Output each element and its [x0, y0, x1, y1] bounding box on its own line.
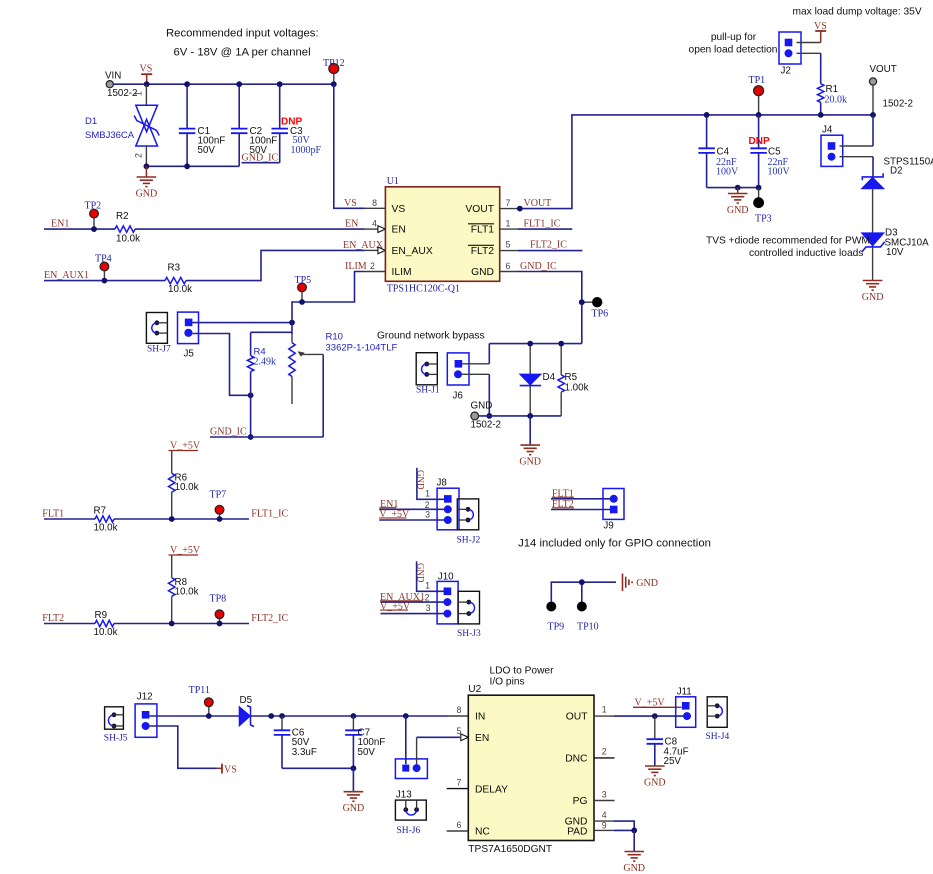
svg-text:EN_AUX1: EN_AUX1 — [44, 270, 89, 281]
node junction TP4 — [102, 278, 108, 284]
node junction TP8 — [217, 621, 223, 627]
node junction C1 bottom — [184, 163, 190, 169]
node junction after D5 — [268, 713, 285, 719]
svg-text:3: 3 — [602, 789, 607, 799]
wire — [171, 596, 173, 623]
resistor R2 — [115, 211, 140, 244]
capacitor C7 — [345, 728, 385, 758]
node junction C7 top — [351, 713, 357, 719]
node junction D4 bottom — [527, 413, 533, 419]
shunt SH-J4 — [706, 697, 730, 742]
wire — [186, 250, 378, 280]
svg-text:2: 2 — [602, 747, 607, 757]
connector J2 — [779, 32, 801, 77]
svg-text:2: 2 — [425, 592, 430, 602]
connector J11 — [676, 686, 696, 727]
wire — [594, 800, 615, 802]
svg-text:10.0k: 10.0k — [168, 284, 192, 295]
wire — [551, 582, 616, 601]
connector J4 — [821, 125, 843, 167]
svg-text:TPS7A1650DGNT: TPS7A1650DGNT — [468, 844, 552, 855]
resistor R5 — [558, 372, 589, 394]
wire — [44, 518, 95, 520]
svg-text:ILIM: ILIM — [392, 267, 412, 278]
wire — [135, 228, 378, 230]
svg-text:NC: NC — [475, 827, 490, 838]
power port V_+5V at R6 — [169, 441, 201, 452]
wire — [149, 715, 239, 717]
resistor R4 — [247, 347, 276, 372]
wire — [250, 715, 447, 717]
wire — [171, 555, 173, 578]
test point TP1 — [749, 75, 766, 115]
capacitor C1 — [179, 126, 225, 156]
pin number 1 of J8 — [425, 489, 430, 499]
net label FLT1_IC — [524, 219, 561, 230]
shunt SH-J3 — [457, 591, 481, 639]
node junction R5 top — [558, 341, 564, 347]
capacitor C8 — [647, 737, 689, 768]
resistor R1 — [818, 84, 848, 106]
node junction R4 mid — [248, 392, 254, 398]
svg-text:TP7: TP7 — [210, 489, 227, 500]
svg-text:8: 8 — [372, 198, 377, 208]
svg-text:3: 3 — [426, 603, 431, 613]
wire — [462, 374, 489, 416]
op-amp U2 TPS7A1650DGNT body — [468, 684, 594, 855]
svg-text:J8: J8 — [437, 477, 448, 488]
svg-text:J11: J11 — [677, 686, 692, 697]
wire — [706, 115, 708, 148]
svg-text:TPS1HC120C-Q1: TPS1HC120C-Q1 — [387, 284, 460, 295]
svg-text:R10: R10 — [326, 332, 343, 343]
wire — [447, 830, 469, 832]
node junction TP11 — [206, 713, 212, 719]
ground — [862, 281, 884, 304]
wire — [251, 332, 292, 355]
ground — [136, 166, 158, 199]
ground — [727, 188, 749, 216]
svg-text:J4: J4 — [822, 125, 833, 136]
capacitor C3 DNP — [271, 117, 321, 157]
svg-text:J6: J6 — [453, 390, 464, 401]
svg-text:VOUT: VOUT — [465, 204, 494, 215]
svg-text:SH-J5: SH-J5 — [104, 734, 128, 744]
svg-text:ILIM: ILIM — [345, 261, 367, 272]
node junction R1 rail — [818, 112, 824, 118]
svg-text:5: 5 — [506, 240, 511, 250]
svg-text:GND: GND — [623, 863, 645, 874]
pin name FLT2 — [468, 245, 494, 257]
svg-text:controlled inductive loads: controlled inductive loads — [749, 248, 863, 259]
wire — [594, 757, 615, 759]
wire — [291, 323, 293, 404]
svg-text:1502-2: 1502-2 — [883, 99, 914, 110]
wire — [186, 84, 188, 128]
svg-text:TP8: TP8 — [210, 593, 227, 604]
wire — [192, 322, 292, 324]
svg-text:3362P-1-104TLF: 3362P-1-104TLF — [326, 343, 398, 354]
svg-text:R7: R7 — [94, 506, 107, 517]
net label FLT2 at J9 — [551, 499, 610, 510]
capacitor C5 DNP — [749, 136, 791, 178]
wire — [462, 344, 489, 364]
svg-text:2: 2 — [425, 500, 430, 510]
diode D3 SMCJ10A — [862, 228, 930, 259]
net label VOUT — [524, 198, 552, 209]
diode D5 — [239, 695, 254, 727]
wire — [581, 582, 583, 601]
svg-text:TP1: TP1 — [749, 75, 766, 86]
svg-text:R1: R1 — [826, 84, 839, 95]
svg-text:GND: GND — [136, 189, 158, 200]
pin number 6 of U2 — [457, 820, 462, 830]
svg-text:VIN: VIN — [105, 71, 121, 82]
svg-text:GND: GND — [727, 205, 749, 216]
pin name VOUT — [465, 204, 494, 215]
node junction TP7 — [217, 516, 223, 522]
pin number 7 of U1 — [506, 198, 511, 208]
ground — [343, 768, 365, 814]
svg-text:8: 8 — [457, 705, 462, 715]
wire — [479, 415, 562, 417]
connector J9 — [603, 489, 624, 532]
wire — [279, 84, 281, 128]
svg-text:LDO to Power: LDO to Power — [490, 666, 555, 677]
test point TP8 — [210, 593, 227, 623]
node junction TP10 — [579, 579, 585, 585]
node junction C4 top — [704, 112, 710, 118]
node junction D1 ground — [144, 163, 150, 169]
test point TP5 — [295, 275, 312, 302]
svg-text:3.3uF: 3.3uF — [292, 747, 317, 758]
svg-text:VS: VS — [344, 198, 357, 209]
diode D2 STPS1150A — [862, 156, 933, 189]
node junction TP12 — [331, 81, 337, 87]
pin number 2 of D1 — [134, 153, 144, 158]
resistor R6 — [169, 473, 199, 494]
node junction TP6 — [579, 299, 585, 305]
wire — [797, 42, 821, 44]
pin name IN — [475, 712, 485, 723]
svg-text:FLT1_IC: FLT1_IC — [251, 509, 288, 520]
pin name EN_AUX — [392, 246, 433, 257]
svg-text:2: 2 — [134, 153, 144, 158]
net label GND rotated at J10 — [416, 561, 444, 591]
pin number 2 of U2 — [602, 747, 607, 757]
test point TP10 — [577, 602, 599, 633]
svg-text:max load dump voltage: 35V: max load dump voltage: 35V — [793, 7, 922, 18]
test point TP9 — [546, 602, 564, 633]
wire — [281, 716, 283, 730]
wire — [840, 157, 874, 177]
wire — [44, 228, 115, 230]
svg-text:GND: GND — [471, 267, 494, 278]
pin number 2 of U1 — [370, 261, 375, 271]
svg-text:10.0k: 10.0k — [94, 627, 118, 638]
svg-text:FLT2: FLT2 — [552, 499, 574, 510]
text LDO to Power — [490, 666, 555, 688]
wire — [149, 726, 216, 768]
pin name PAD — [567, 827, 587, 838]
svg-text:D1: D1 — [85, 116, 97, 127]
wire — [529, 386, 531, 416]
wire — [365, 207, 386, 209]
svg-text:VOUT: VOUT — [524, 198, 552, 209]
svg-text:1: 1 — [134, 91, 144, 96]
pin number 5 of U1 — [506, 240, 511, 250]
pin arrow EN_AUX — [378, 247, 386, 254]
wire — [145, 84, 147, 105]
svg-text:TP9: TP9 — [548, 621, 565, 632]
wire — [872, 189, 874, 233]
svg-text:J12: J12 — [137, 692, 153, 703]
test point TP3 — [753, 188, 771, 225]
net label EN_AUX — [343, 240, 384, 251]
svg-text:10.0k: 10.0k — [116, 233, 140, 244]
net label FLT1 — [42, 509, 64, 520]
svg-text:4: 4 — [372, 219, 377, 229]
wire — [560, 344, 562, 375]
connector EN jumper — [395, 759, 427, 779]
svg-text:1: 1 — [425, 489, 430, 499]
ground — [623, 830, 645, 874]
svg-text:R2: R2 — [116, 211, 129, 222]
svg-text:EN_AUX: EN_AUX — [392, 246, 433, 257]
power port VS rotated — [217, 764, 237, 776]
svg-text:J9: J9 — [603, 521, 613, 532]
pin name FLT1 — [468, 224, 494, 236]
connector J6 — [447, 353, 469, 401]
svg-text:TP2: TP2 — [85, 201, 102, 212]
net label GND rotated at J8 — [415, 468, 444, 499]
node junction R4 bottom — [248, 434, 254, 440]
svg-text:FLT1: FLT1 — [42, 509, 64, 520]
text TVS diode note — [706, 236, 870, 259]
wire — [654, 716, 656, 739]
svg-text:J2: J2 — [781, 66, 791, 77]
test point TP11 — [189, 685, 214, 716]
node junction C8 top — [652, 713, 658, 719]
svg-text:J13: J13 — [396, 789, 412, 800]
wire — [238, 84, 240, 128]
power port V_+5V at J11 — [633, 697, 682, 708]
net label FLT1_IC right — [251, 509, 288, 520]
pin number 4 of U1 — [372, 219, 377, 229]
svg-text:IN: IN — [475, 712, 485, 723]
wire — [654, 744, 656, 766]
connector J12 — [135, 692, 157, 738]
shunt SH-J1 — [416, 353, 440, 396]
test point TP6 — [582, 297, 608, 320]
wire — [292, 272, 385, 323]
shunt SH-J2 — [457, 499, 481, 546]
svg-text:VS: VS — [392, 204, 406, 215]
net label GND_IC at R4 — [210, 427, 247, 438]
svg-text:6: 6 — [506, 261, 511, 271]
wire — [529, 344, 531, 375]
node junction C7 bottom — [351, 765, 357, 771]
net label EN_AUX1 — [44, 270, 89, 281]
svg-text:EN1: EN1 — [51, 219, 69, 230]
svg-text:VS: VS — [224, 764, 237, 775]
svg-text:TP6: TP6 — [592, 309, 609, 320]
svg-text:1: 1 — [506, 219, 511, 229]
net label VS — [344, 198, 357, 209]
svg-text:1: 1 — [602, 705, 607, 715]
test point VOUT — [869, 64, 913, 115]
pin number 1 of D1 — [134, 91, 144, 96]
resistor R9 — [94, 610, 118, 638]
text ground network bypass — [377, 331, 485, 342]
svg-text:TVS +diode recommended for PWM: TVS +diode recommended for PWM — [706, 236, 870, 247]
node junction R10 top — [289, 320, 295, 326]
svg-text:I/O pins: I/O pins — [490, 677, 525, 688]
svg-text:SH-J2: SH-J2 — [457, 536, 481, 546]
svg-text:FLT1: FLT1 — [471, 225, 495, 236]
power port VS at J2 — [814, 21, 827, 43]
svg-text:D4: D4 — [543, 372, 556, 383]
svg-text:U1: U1 — [387, 176, 399, 187]
svg-text:DNC: DNC — [565, 754, 588, 765]
svg-text:Ground network bypass: Ground network bypass — [377, 331, 485, 342]
connector J5 — [178, 312, 199, 359]
svg-text:10.0k: 10.0k — [175, 587, 199, 598]
svg-text:DNP: DNP — [749, 136, 770, 147]
svg-text:D5: D5 — [240, 695, 253, 706]
svg-text:50V: 50V — [358, 747, 376, 758]
svg-text:GND: GND — [471, 401, 493, 412]
svg-text:FLT1: FLT1 — [552, 489, 574, 500]
pin name DNC — [565, 754, 588, 765]
node junction VOUT rail — [870, 112, 876, 118]
svg-text:20.0k: 20.0k — [825, 94, 848, 105]
node junction D4 top — [527, 341, 533, 347]
svg-text:6: 6 — [457, 820, 462, 830]
text max load dump voltage — [793, 7, 922, 18]
pin name EN — [392, 225, 406, 236]
svg-text:GND_IC: GND_IC — [520, 261, 557, 272]
net label FLT2_IC — [530, 240, 567, 251]
svg-text:100V: 100V — [716, 167, 739, 178]
wire — [171, 451, 173, 474]
svg-text:R9: R9 — [95, 610, 108, 621]
diode D4 — [520, 372, 556, 386]
svg-text:EN: EN — [345, 219, 358, 230]
test point TP2 — [85, 201, 102, 229]
text J14 note — [518, 538, 711, 550]
ground — [519, 416, 541, 468]
capacitor C2 — [231, 126, 277, 156]
wire — [44, 280, 165, 282]
svg-text:GND_IC: GND_IC — [242, 153, 279, 164]
pin number 3 of J10 — [426, 603, 431, 613]
net label FLT1 at J9 — [551, 489, 610, 500]
svg-text:OUT: OUT — [566, 712, 588, 723]
test point GND 1502-2 — [471, 401, 502, 431]
wire — [44, 623, 95, 625]
svg-text:V_+5V: V_+5V — [170, 545, 201, 556]
wire — [560, 392, 562, 416]
svg-text:J14 included only for GPIO con: J14 included only for GPIO connection — [518, 538, 711, 550]
wire — [500, 250, 583, 252]
svg-text:FLT2: FLT2 — [42, 613, 64, 624]
node junction TP2 — [91, 226, 97, 232]
shunt SH-J5 — [104, 707, 128, 744]
wire — [192, 334, 250, 396]
node junction VS rail — [144, 81, 150, 87]
connector J8 — [437, 477, 460, 529]
wire — [145, 146, 147, 166]
wire — [820, 102, 822, 115]
pin name PG — [573, 796, 588, 807]
svg-text:FLT1_IC: FLT1_IC — [524, 219, 561, 230]
pin number 5 of U2 — [457, 726, 462, 736]
svg-text:SH-J3: SH-J3 — [457, 629, 481, 639]
svg-text:SH-J7: SH-J7 — [147, 345, 171, 355]
svg-text:1502-2: 1502-2 — [471, 420, 502, 431]
wire — [114, 623, 249, 625]
test point TP4 — [95, 253, 112, 280]
wire — [171, 492, 173, 519]
wire — [594, 829, 634, 831]
pin name DELAY — [475, 784, 508, 795]
shunt SH-J7 — [146, 313, 171, 355]
ground — [644, 766, 666, 789]
svg-text:GND: GND — [343, 803, 365, 814]
svg-text:TP5: TP5 — [295, 275, 312, 286]
svg-text:U2: U2 — [468, 684, 481, 695]
pin number 7 of U2 — [457, 778, 462, 788]
pin arrow EN of U2 — [461, 734, 469, 741]
svg-text:TP4: TP4 — [95, 253, 112, 264]
svg-text:SH-J1: SH-J1 — [416, 386, 440, 396]
node junction R8 FLT2 — [169, 621, 175, 627]
svg-text:GND_IC: GND_IC — [210, 427, 247, 438]
test point VIN — [105, 71, 138, 100]
pin number 4 of U2 — [602, 810, 607, 820]
pin number 8 of U1 — [372, 198, 377, 208]
wire — [758, 115, 760, 148]
wire — [146, 165, 239, 167]
wire — [872, 247, 874, 281]
wire — [489, 343, 582, 345]
svg-text:VOUT: VOUT — [870, 64, 897, 75]
svg-text:FLT2_IC: FLT2_IC — [530, 240, 567, 251]
svg-text:2: 2 — [370, 261, 375, 271]
svg-text:VS: VS — [814, 21, 827, 32]
svg-text:Recommended input voltages:: Recommended input voltages: — [166, 28, 319, 40]
diode D1 SMBJ36CA — [85, 105, 159, 146]
pin number 3 of U2 — [602, 789, 607, 799]
svg-text:PG: PG — [573, 796, 588, 807]
wire — [210, 355, 323, 437]
wire — [840, 115, 874, 146]
wire — [594, 821, 634, 830]
net label FLT2_IC right — [251, 613, 288, 624]
svg-text:TP10: TP10 — [577, 621, 599, 632]
node junction C2 top — [236, 81, 242, 87]
ground rotated — [623, 574, 658, 592]
svg-text:1000pF: 1000pF — [291, 145, 322, 156]
svg-text:GND: GND — [636, 578, 658, 589]
net label GND_IC pin6 — [520, 261, 557, 272]
power port V_+5V at J8 — [379, 509, 444, 520]
svg-text:J5: J5 — [184, 349, 195, 360]
wire — [352, 716, 354, 730]
pin name NC — [475, 827, 490, 838]
wire — [707, 153, 759, 188]
